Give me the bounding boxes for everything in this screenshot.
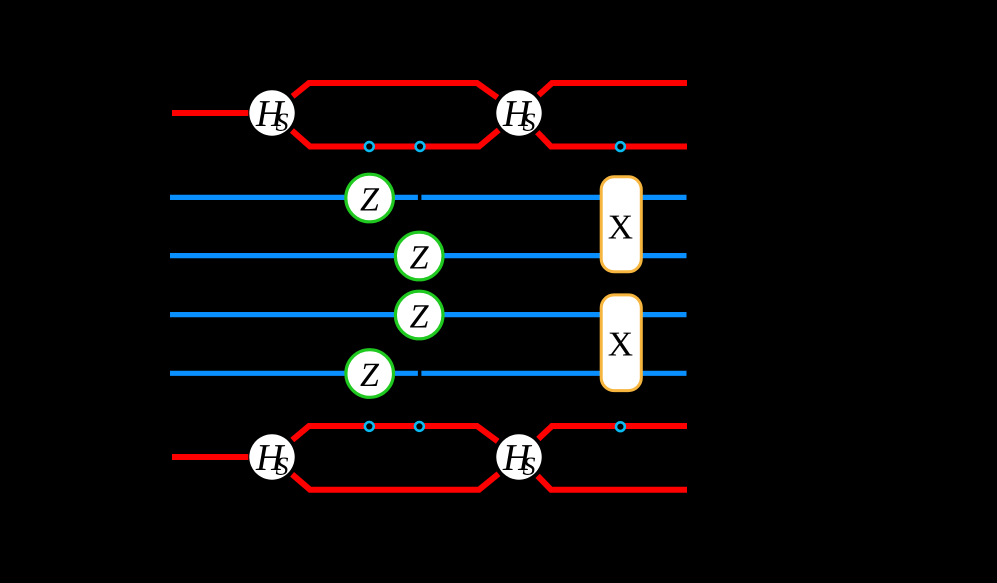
wire: qubit 4 left segment — [170, 371, 418, 376]
wire: top input stub — [172, 110, 248, 116]
node photon marker bottom rail col 2 — [415, 422, 424, 431]
node photon marker bottom rail col 3 — [616, 422, 625, 431]
node photon marker top rail col 1 — [365, 142, 374, 151]
gate X qubits 3-4 — [601, 295, 641, 391]
node photon marker top rail col 3 — [616, 142, 625, 151]
gate X qubits 1-2 — [601, 177, 641, 272]
gate Z qubit3 — [395, 291, 443, 339]
wire: bottom right upper output — [538, 426, 687, 439]
gate Z qubit4 — [346, 350, 394, 398]
wire: top right lower output — [537, 132, 687, 146]
wire: qubit 2 — [170, 253, 687, 258]
gate Hs top-right — [496, 90, 541, 135]
gate Hs bottom-right — [496, 434, 541, 479]
wire: bottom interferometer lower arm — [292, 474, 498, 490]
gate Z qubit1 — [346, 174, 394, 222]
wire: top interferometer lower arm — [292, 130, 499, 147]
wire: bottom right lower output — [538, 476, 687, 490]
wire: top interferometer upper arm — [293, 83, 498, 98]
wire: top right upper output — [539, 83, 687, 95]
node photon marker top rail col 2 — [416, 142, 425, 151]
gate Hs top-left — [249, 90, 294, 135]
wire: qubit 1 left segment — [170, 195, 418, 200]
node photon marker bottom rail col 1 — [365, 422, 374, 431]
wire: bottom interferometer upper arm — [292, 426, 497, 441]
wire: qubit 1 right segment — [421, 195, 686, 200]
gate Hs bottom-left — [249, 434, 294, 479]
wire: qubit 3 — [170, 312, 687, 317]
wire: qubit 4 right segment — [421, 371, 686, 376]
wire: bottom input stub — [172, 454, 248, 460]
gate Z qubit2 — [395, 232, 443, 280]
